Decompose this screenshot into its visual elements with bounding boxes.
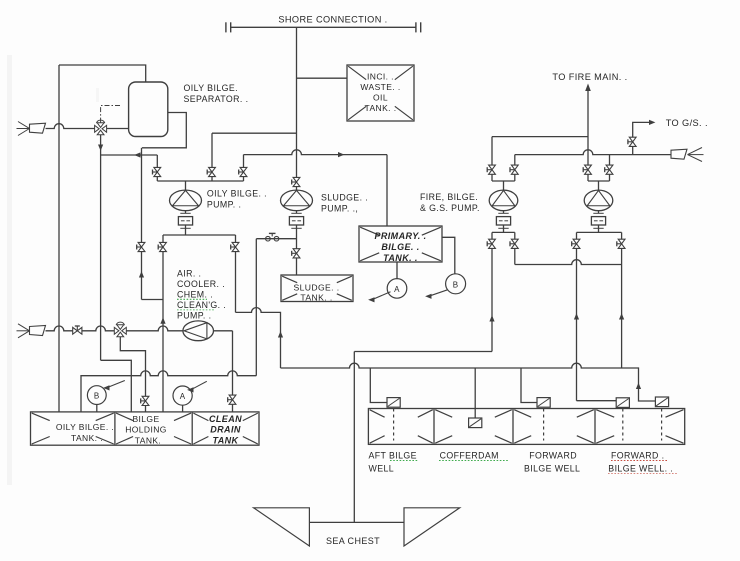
svg-text:CHEM. .: CHEM. . [177,290,213,300]
svg-text:PRIMARY. .: PRIMARY. . [374,231,426,241]
svg-text:TANK. .: TANK. . [300,292,332,302]
svg-text:TANK. .: TANK. . [365,103,397,113]
svg-text:DRAIN: DRAIN [210,425,241,435]
svg-text:PUMP. .: PUMP. . [207,199,241,209]
svg-text:A: A [394,285,400,294]
svg-text:SLUDGE. .: SLUDGE. . [293,282,339,292]
svg-text:OILY BILGE. .: OILY BILGE. . [56,422,114,432]
svg-text:INCI. .: INCI. . [367,72,394,82]
svg-text:TANK.: TANK. [135,435,161,445]
svg-text:PUMP. .: PUMP. . [177,311,211,321]
svg-text:WASTE. .: WASTE. . [360,82,400,92]
svg-text:AIR. .: AIR. . [177,269,201,279]
svg-text:AFT BILGE: AFT BILGE [369,451,417,461]
svg-text:SHORE CONNECTION .: SHORE CONNECTION . [278,14,387,24]
svg-text:BILGE: BILGE [132,414,159,424]
svg-text:B: B [453,280,459,289]
svg-text:TO FIRE MAIN. .: TO FIRE MAIN. . [552,72,627,82]
svg-text:TANK. .: TANK. . [383,253,418,263]
svg-text:BILGE WELL. .: BILGE WELL. . [608,464,673,474]
svg-text:FORWARD .: FORWARD . [611,451,664,461]
svg-text:SEPARATOR. .: SEPARATOR. . [184,94,249,104]
svg-text:B: B [94,392,100,401]
svg-text:& G.S. PUMP.: & G.S. PUMP. [420,203,480,213]
svg-text:FIRE, BILGE.: FIRE, BILGE. [420,192,478,202]
svg-text:OILY BILGE. .: OILY BILGE. . [207,188,267,198]
svg-text:COFFERDAM: COFFERDAM [440,451,499,461]
svg-text:PUMP. .,: PUMP. ., [321,204,358,214]
svg-text:TANK. .: TANK. . [71,433,103,443]
svg-text:WELL: WELL [369,464,395,474]
svg-text:OILY BILGE.: OILY BILGE. [184,83,238,93]
svg-text:OIL: OIL [373,93,388,103]
svg-text:CLEAN: CLEAN [209,414,242,424]
svg-text:CLEAN'G. .: CLEAN'G. . [177,300,226,310]
svg-text:A: A [180,392,186,401]
svg-text:BILGE WELL: BILGE WELL [524,464,580,474]
svg-text:BILGE. .: BILGE. . [381,242,419,252]
svg-text:COOLER. .: COOLER. . [177,279,225,289]
svg-text:SLUDGE. .: SLUDGE. . [321,193,368,203]
svg-text:SEA CHEST: SEA CHEST [326,536,380,546]
svg-text:HOLDING: HOLDING [125,425,167,435]
svg-text:FORWARD: FORWARD [529,451,577,461]
svg-text:TO G/S. .: TO G/S. . [666,118,708,128]
svg-text:TANK: TANK [213,435,240,445]
